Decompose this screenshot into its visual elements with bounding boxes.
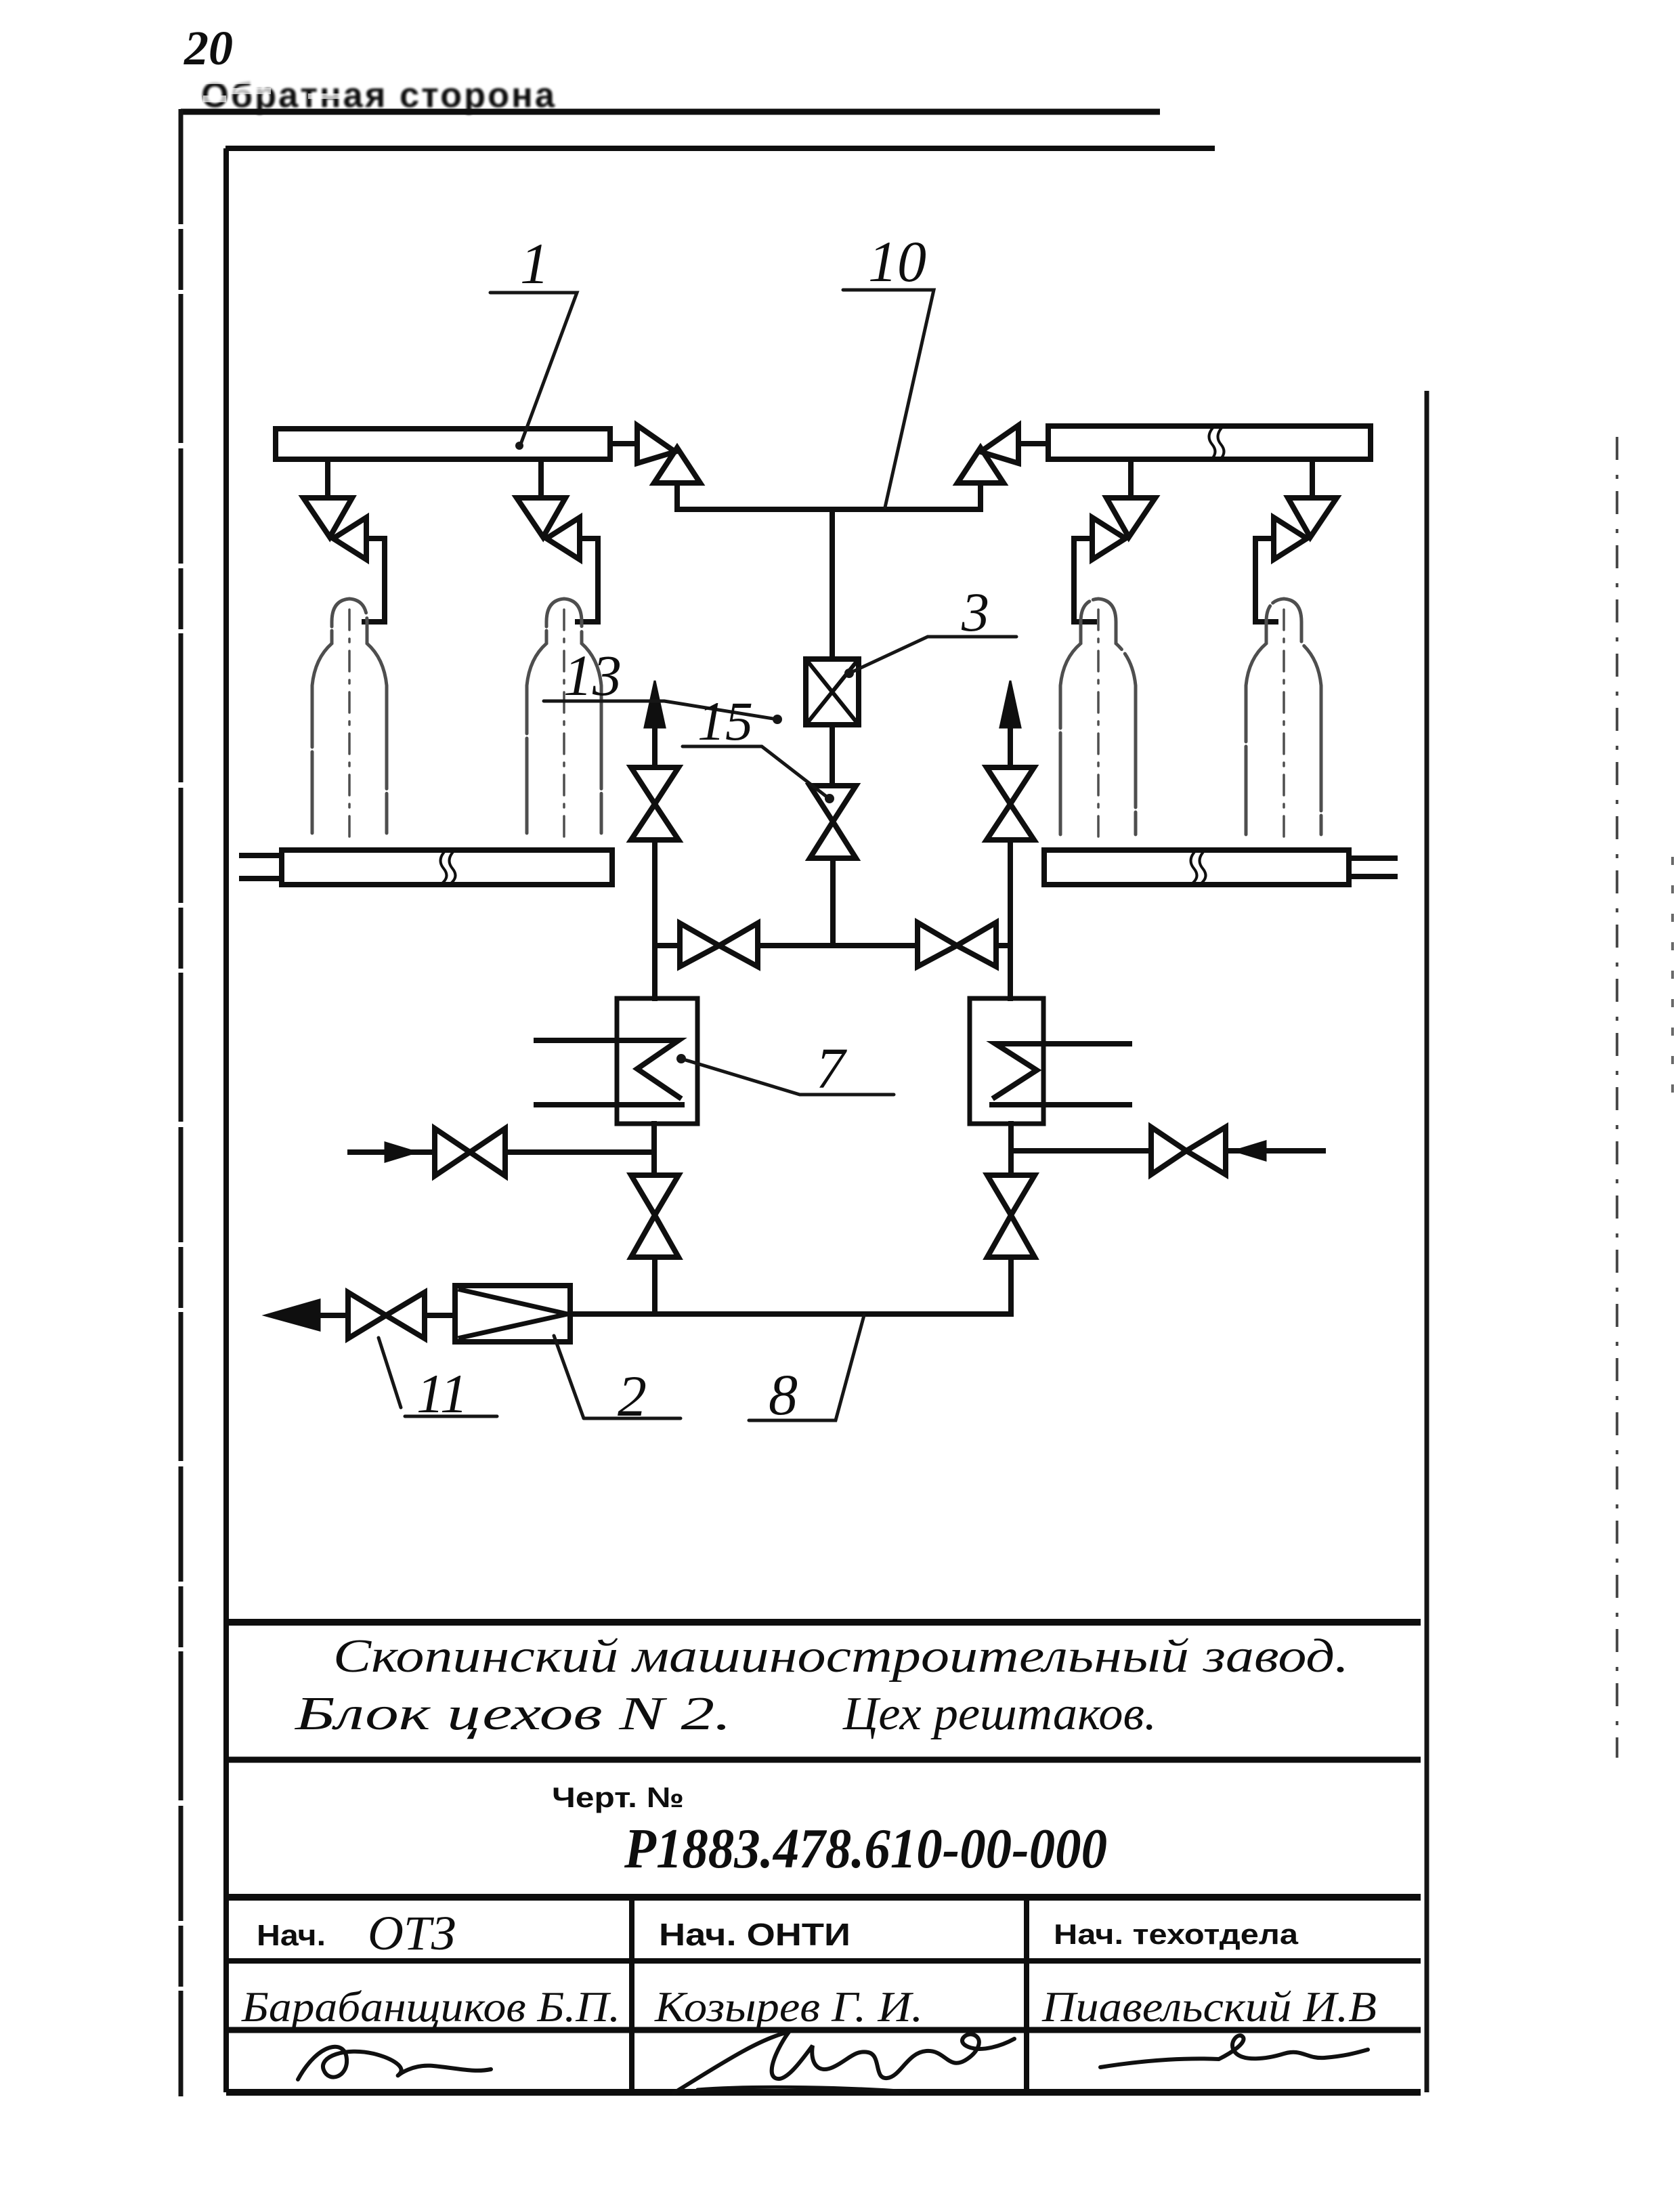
signature 2 bbox=[674, 2032, 1014, 2093]
wire: center header line 10 bbox=[677, 507, 981, 512]
left drain valve (bowtie vertical) bbox=[631, 1175, 679, 1257]
heat exchanger 7 right shell bbox=[970, 998, 1043, 1124]
frame outer top line bbox=[181, 109, 1160, 115]
heat exchanger 7 left shell bbox=[617, 998, 697, 1124]
label 8 leader bbox=[749, 1315, 864, 1420]
arrow on left water inlet bbox=[385, 1143, 416, 1162]
svg-text:Нач. техотдела: Нач. техотдела bbox=[1054, 1918, 1299, 1950]
wire: drop from manifold to regulator R1 bbox=[325, 459, 330, 498]
title block bottom border bbox=[226, 2089, 1421, 2096]
callout labels bbox=[379, 290, 1016, 1420]
break mark on lower left manifold bbox=[441, 853, 456, 882]
cylinder B4 bbox=[1246, 599, 1321, 834]
wire: vent stack right down through crossover to exchanger bbox=[1008, 840, 1013, 998]
heat exchanger 7 right coil bbox=[992, 1044, 1129, 1105]
wire: left exchanger outlet down bbox=[651, 1124, 657, 1175]
svg-text:Нач. ОНТИ: Нач. ОНТИ bbox=[659, 1917, 850, 1952]
vent valve left (bowtie) bbox=[631, 767, 679, 840]
crossover valve right (bowtie) bbox=[918, 923, 996, 967]
title block column divider 2 bbox=[1024, 1897, 1029, 2092]
manifold ramp upper right bbox=[1048, 426, 1371, 459]
svg-text:8: 8 bbox=[769, 1362, 798, 1427]
wire: right exchanger outlet down bbox=[1008, 1124, 1014, 1175]
title block column divider 1 bbox=[629, 1897, 634, 2092]
arrow on right water inlet bbox=[1234, 1141, 1266, 1160]
svg-text:Блок цехов N 2.: Блок цехов N 2. bbox=[295, 1688, 731, 1740]
leader dot cylinders 13 bbox=[773, 715, 782, 724]
wire: valve 3 to valve 15 bbox=[830, 725, 835, 786]
wire: bottom header line 8 bbox=[318, 1314, 1011, 1315]
title block line above signature columns bbox=[226, 1894, 1421, 1901]
wire: right drain down to bottom header corner bbox=[1008, 1257, 1014, 1314]
frame inner top line bbox=[225, 146, 1215, 151]
title block top border bbox=[226, 1619, 1421, 1626]
title block line under name bbox=[226, 1757, 1421, 1763]
svg-text:15: 15 bbox=[697, 690, 753, 752]
leader dot valve 3 bbox=[844, 669, 854, 678]
center regulator right bbox=[957, 425, 1018, 509]
frame right border bbox=[1425, 391, 1429, 2092]
leader dot on manifold 1 bbox=[515, 442, 523, 450]
signature 3 bbox=[1100, 2035, 1368, 2067]
svg-text:13: 13 bbox=[563, 643, 622, 708]
vent stack right arrow bbox=[1008, 711, 1013, 767]
wire: center tee down to valve 3 bbox=[830, 509, 835, 659]
outlet arrow left (line 11 end) bbox=[265, 1300, 320, 1330]
label 15 leader bbox=[683, 746, 831, 800]
wire: right manifold to center regulator bbox=[1018, 441, 1048, 446]
pressure regulator R2 bbox=[517, 498, 598, 622]
svg-text:20: 20 bbox=[184, 21, 233, 75]
title block line under names row bbox=[226, 2027, 1421, 2033]
leader dot exchanger 7 bbox=[676, 1054, 686, 1063]
cylinder B1 bbox=[312, 599, 387, 833]
svg-text:Цех рештаков.: Цех рештаков. bbox=[842, 1688, 1157, 1740]
svg-text:P1883.478.610-00-000: P1883.478.610-00-000 bbox=[624, 1817, 1107, 1880]
svg-text:Пиавельский И.В: Пиавельский И.В bbox=[1041, 1983, 1377, 2031]
label 3 leader bbox=[849, 637, 1016, 673]
wire: left manifold to center regulator bbox=[610, 441, 637, 446]
title block line under position row bbox=[226, 1958, 1421, 1964]
filter 2 (box with wedge) bbox=[455, 1286, 570, 1342]
title block bbox=[226, 1622, 1421, 2092]
pressure regulator R3 bbox=[1074, 498, 1155, 622]
wire: left drain down to bottom header bbox=[652, 1257, 658, 1313]
wire: vent stack left down through crossover to exchanger bbox=[652, 840, 658, 998]
manifold ramp lower right bbox=[1044, 850, 1349, 885]
label 11 leader bbox=[379, 1338, 497, 1416]
wire: lower right manifold stubs bbox=[1349, 858, 1395, 876]
crossover valve left (bowtie) bbox=[680, 923, 758, 967]
heat exchanger 7 left coil bbox=[536, 1040, 682, 1105]
cylinder B2 bbox=[527, 599, 601, 833]
svg-text:Нач.: Нач. bbox=[257, 1919, 326, 1952]
svg-text:1: 1 bbox=[520, 231, 549, 296]
svg-text:Черт. №: Черт. № bbox=[552, 1781, 684, 1813]
break mark on upper right manifold bbox=[1209, 429, 1224, 459]
right edge faint mark bbox=[1671, 857, 1674, 1097]
left inlet valve (bowtie) bbox=[435, 1128, 505, 1176]
wire: valve 15 down to crossover bbox=[830, 858, 836, 944]
frame inner left border bbox=[223, 148, 229, 2092]
wire: crossover line bbox=[655, 943, 1010, 948]
label 13 leader bbox=[544, 701, 777, 719]
cylinder B3 bbox=[1060, 599, 1136, 834]
right drain valve (bowtie vertical) bbox=[987, 1175, 1035, 1257]
svg-text:2: 2 bbox=[618, 1363, 647, 1429]
binding fold dashed line bbox=[1616, 437, 1618, 1758]
label 2 leader bbox=[554, 1336, 681, 1418]
pressure regulator R4 bbox=[1255, 498, 1337, 622]
svg-text:Барабанщиков Б.П.: Барабанщиков Б.П. bbox=[241, 1983, 620, 2031]
label 10 leader bbox=[843, 290, 934, 507]
label 1 leader bbox=[490, 293, 577, 448]
manifold ramp 1 (upper left) bbox=[276, 429, 610, 459]
vent stack left arrow bbox=[652, 711, 658, 767]
wire: drop from manifold to regulator R3 bbox=[1128, 459, 1134, 498]
leader dot valve 15 bbox=[825, 794, 834, 803]
valve 3 (safety device, crossed box) bbox=[806, 659, 859, 725]
wire: lower left manifold stubs bbox=[242, 855, 282, 879]
frame outer left border bbox=[179, 109, 184, 2096]
center regulator left (line 10 side) bbox=[637, 425, 700, 509]
svg-text:10: 10 bbox=[868, 229, 926, 294]
svg-text:Козырев Г. И.: Козырев Г. И. bbox=[654, 1983, 923, 2031]
valve 15 (shutoff bowtie) bbox=[810, 786, 856, 858]
svg-text:3: 3 bbox=[961, 581, 989, 643]
break mark on lower right manifold bbox=[1191, 853, 1206, 882]
valve 11 (bowtie) bbox=[348, 1292, 425, 1338]
pressure regulator R1 bbox=[303, 498, 385, 622]
manifold ramp lower left bbox=[282, 850, 612, 885]
vent valve right (bowtie) bbox=[987, 767, 1034, 840]
gas cylinder 13 group bbox=[312, 599, 1321, 838]
wire: drop from manifold to regulator R2 bbox=[538, 459, 544, 498]
svg-text:ОТЗ: ОТЗ bbox=[368, 1906, 456, 1960]
smudged header text "Обратная сторона" bbox=[201, 76, 557, 115]
svg-text:Скопинский машиностроительный: Скопинский машиностроительный завод. bbox=[333, 1630, 1349, 1683]
wire: right water inlet line bbox=[1011, 1148, 1323, 1154]
signature 1 bbox=[298, 2047, 491, 2079]
label 7 leader bbox=[681, 1059, 894, 1095]
wire: left water inlet line bbox=[350, 1149, 654, 1155]
wire: drop from manifold to regulator R4 bbox=[1310, 459, 1315, 498]
svg-text:7: 7 bbox=[816, 1036, 847, 1101]
right inlet valve (bowtie) bbox=[1151, 1127, 1226, 1175]
svg-text:11: 11 bbox=[416, 1363, 468, 1424]
